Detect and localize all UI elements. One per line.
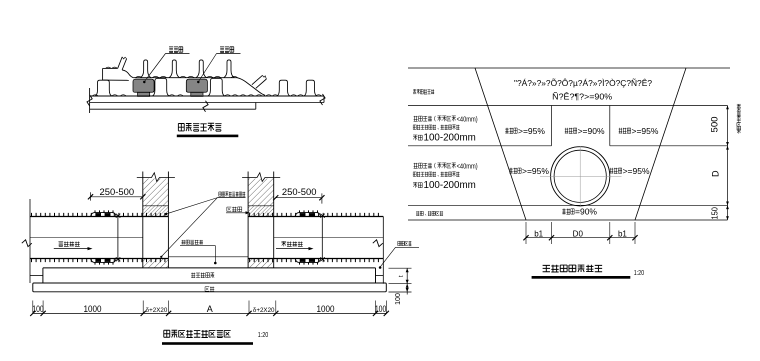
svg-text:=90%: =90% bbox=[575, 207, 597, 217]
svg-text:250-500: 250-500 bbox=[282, 187, 317, 197]
svg-text:"?Á?»?»?Õ?Ô?µ?Á?»?Ì?Ò?Ç?Ñ?Ê?: "?Á?»?»?Õ?Ô?µ?Á?»?Ì?Ò?Ç?Ñ?Ê? bbox=[514, 78, 652, 88]
svg-text:500: 500 bbox=[709, 117, 720, 133]
svg-text:1:20: 1:20 bbox=[634, 268, 645, 277]
svg-text:t: t bbox=[398, 275, 405, 277]
svg-text:Ñ?Ê?¶?>=90%: Ñ?Ê?¶?>=90% bbox=[552, 92, 613, 102]
svg-text:<40mm): <40mm) bbox=[457, 117, 478, 124]
svg-text:b1: b1 bbox=[618, 229, 627, 238]
svg-text:150: 150 bbox=[710, 207, 719, 220]
svg-text:>=95%: >=95% bbox=[522, 166, 549, 176]
svg-text:1:20: 1:20 bbox=[258, 330, 269, 339]
svg-text:250-500: 250-500 bbox=[100, 187, 135, 197]
svg-text:100-200mm: 100-200mm bbox=[424, 180, 476, 191]
svg-text:D0: D0 bbox=[573, 230, 584, 239]
svg-text:100: 100 bbox=[375, 304, 387, 314]
svg-text:>=95%: >=95% bbox=[632, 126, 659, 136]
svg-text:1000: 1000 bbox=[84, 304, 102, 314]
svg-text:1000: 1000 bbox=[317, 304, 335, 314]
svg-text:<40mm): <40mm) bbox=[457, 164, 478, 171]
svg-text:δ+2X20: δ+2X20 bbox=[253, 307, 275, 314]
svg-text:δ+2X20: δ+2X20 bbox=[146, 307, 168, 314]
svg-text:D: D bbox=[710, 170, 720, 177]
svg-text:A: A bbox=[207, 304, 213, 314]
svg-text:100: 100 bbox=[395, 293, 402, 305]
svg-text:>=95%: >=95% bbox=[518, 126, 545, 136]
svg-text:>=95%: >=95% bbox=[623, 166, 650, 176]
svg-text:100: 100 bbox=[32, 304, 44, 314]
svg-text:>=90%: >=90% bbox=[578, 126, 605, 136]
svg-text:100-200mm: 100-200mm bbox=[424, 133, 476, 144]
svg-text:b1: b1 bbox=[534, 229, 543, 238]
